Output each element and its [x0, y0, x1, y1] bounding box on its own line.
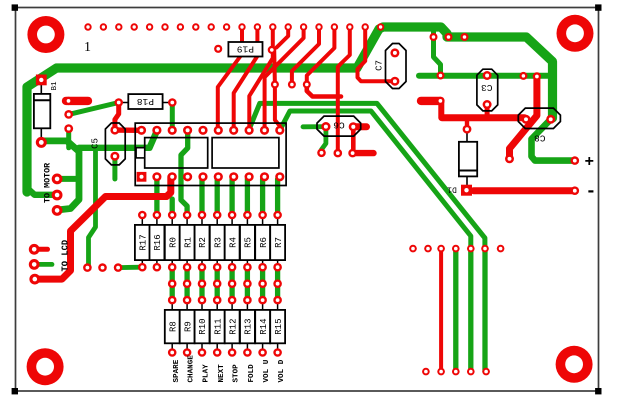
resistor bank2 bottom pads — [168, 348, 282, 357]
svg-text:R8: R8 — [168, 321, 178, 332]
svg-text:C6: C6 — [333, 119, 345, 130]
TO MOTOR connector pads — [52, 174, 63, 216]
pad via fan a0 — [271, 81, 279, 89]
pad P18 left — [114, 98, 123, 107]
svg-text:D1: D1 — [447, 185, 457, 194]
wire lcd pad1 stub — [34, 247, 47, 252]
wire header pad18 through C6 middle — [338, 27, 350, 153]
wire green horizontal net y76 — [419, 73, 551, 79]
svg-text:TO LCD: TO LCD — [61, 240, 71, 272]
pad via — [64, 124, 73, 133]
mounting hole bottom-right — [556, 346, 593, 383]
wire header pad16 fan — [292, 27, 319, 85]
pad C7 top — [390, 48, 399, 57]
wire red horizontal to C8 — [442, 114, 525, 121]
svg-text:R12: R12 — [228, 318, 238, 334]
svg-text:R3: R3 — [213, 237, 223, 248]
wire red horizontal y96 — [307, 85, 341, 97]
pad via y76 a — [437, 72, 445, 80]
wire via down to socket pin — [275, 85, 280, 131]
wire C5 bottom stub — [112, 156, 117, 179]
resistor P18 — [119, 94, 173, 109]
pad plus terminal — [571, 156, 580, 165]
svg-text:STOP: STOP — [233, 364, 241, 383]
svg-text:R4: R4 — [228, 237, 238, 248]
wire P19 right down to via — [272, 50, 277, 85]
pad below C6 a — [317, 149, 326, 158]
svg-text:VOL U: VOL U — [263, 359, 271, 382]
TO LCD connector pads — [29, 244, 40, 285]
pad via fan a — [288, 81, 296, 89]
wire red pill mid — [421, 97, 440, 105]
capacitor C6 — [317, 116, 361, 136]
pad pill right — [436, 97, 444, 105]
svg-text:R11: R11 — [213, 318, 223, 334]
wire B1 cathode S-bus — [42, 141, 79, 210]
pad C5 minus — [110, 152, 119, 161]
svg-text:SPARE: SPARE — [173, 359, 181, 382]
svg-text:R1: R1 — [183, 237, 193, 248]
bottom-right header pads bottom row — [422, 368, 490, 376]
wire C6 bottom right stub — [353, 150, 374, 156]
pad B1 cathode — [36, 137, 47, 148]
wire pill down — [438, 101, 444, 118]
resistor bank1 pads — [138, 211, 282, 272]
pad C8 right — [546, 115, 555, 124]
pad via green a — [430, 33, 438, 41]
capacitor C7 — [375, 44, 406, 89]
wire C6 right pill — [353, 123, 366, 130]
header via pads between banks — [168, 279, 282, 304]
pad C8 left — [522, 115, 531, 124]
svg-text:R0: R0 — [168, 237, 178, 248]
pads row near TO LCD — [83, 263, 122, 272]
wire red pill near B1 — [66, 97, 88, 105]
resistor P19 — [228, 42, 262, 57]
svg-text:R13: R13 — [244, 318, 254, 334]
wires resistor bank1 to header stubs — [172, 267, 277, 300]
mounting hole top-right — [557, 15, 594, 52]
pad below C6 b — [334, 149, 343, 158]
wire C6 left pad down — [322, 127, 326, 153]
svg-text:CHANGE: CHANGE — [188, 355, 196, 383]
wire bottom-right red vertical — [439, 249, 443, 372]
wire header pad17 fan — [307, 27, 335, 85]
svg-text:B1: B1 — [51, 81, 59, 91]
pad below C6 c — [348, 149, 357, 158]
wire green stub via top — [434, 30, 441, 75]
pad D1 top — [463, 125, 472, 134]
svg-text:R15: R15 — [274, 318, 284, 334]
wire header pad12 fan — [234, 27, 258, 130]
wire header pad14 to P19 right — [277, 27, 289, 48]
wire green to + pad — [532, 119, 575, 160]
pad P19 right — [268, 46, 276, 54]
wire red minus rail — [474, 187, 575, 194]
wire pad down — [66, 129, 71, 148]
svg-text:R14: R14 — [259, 318, 269, 334]
diode D1 — [447, 131, 477, 194]
pad C6 right — [349, 122, 358, 131]
wire thin vertical to lcd row — [89, 149, 96, 267]
wire header pad15 fan — [265, 27, 304, 130]
svg-text:C8: C8 — [534, 132, 546, 143]
wire green long diagonal B — [280, 111, 471, 249]
svg-text:P18: P18 — [137, 96, 154, 107]
resistor bank R8-R15 — [165, 300, 285, 352]
wires bottom-right green verticals — [456, 249, 485, 372]
wire motor pad1 stub — [57, 176, 79, 182]
wire red LCD bus — [35, 177, 171, 279]
wire header pad13 fan — [249, 27, 272, 130]
diode B1 — [34, 81, 59, 138]
resistor bank R17 R16 R0-R7 — [135, 214, 285, 268]
svg-text:C5: C5 — [91, 138, 101, 149]
pad C3 top — [483, 71, 492, 80]
pad C3 bottom — [483, 100, 492, 109]
wire header pad19 to C7 — [358, 27, 395, 81]
pad via y76 b — [519, 72, 527, 80]
wire red right zigzag — [510, 78, 537, 159]
wire C6 right pad down — [351, 127, 356, 153]
wire P18 left to C5 top — [115, 103, 119, 131]
svg-text:1: 1 — [84, 40, 91, 55]
pad P18 right — [168, 98, 177, 107]
pad via fan b — [303, 81, 311, 89]
mounting hole top-left — [27, 16, 64, 53]
svg-text:+: + — [585, 153, 595, 171]
bottom-right header pads top row — [409, 245, 504, 253]
pad red top right — [533, 72, 541, 80]
capacitor C5 — [91, 123, 126, 165]
svg-text:FOLD: FOLD — [248, 364, 256, 383]
pad B1 anode square — [36, 75, 47, 86]
svg-text:R5: R5 — [244, 237, 254, 248]
pad P19 left — [214, 45, 222, 53]
wire C6 left stub — [303, 124, 326, 129]
svg-text:C3: C3 — [481, 82, 493, 93]
wire P18 right pad to socket — [170, 103, 175, 131]
svg-text:R6: R6 — [259, 237, 269, 248]
button name labels — [173, 355, 286, 383]
svg-text:P19: P19 — [237, 44, 254, 55]
pad via — [64, 110, 73, 119]
wire C3 bottom down — [485, 105, 490, 118]
svg-text:R9: R9 — [183, 321, 193, 332]
svg-text:R7: R7 — [274, 237, 284, 248]
svg-text:PLAY: PLAY — [203, 364, 211, 383]
pad C7 bottom — [390, 77, 399, 86]
pad D1 bottom square — [461, 185, 472, 196]
wire green long diagonal A — [249, 103, 485, 248]
svg-text:-: - — [586, 182, 597, 202]
wire band through C5 to socket pin2 — [79, 131, 157, 148]
capacitor C8 — [518, 108, 560, 143]
pad via pill — [64, 97, 72, 105]
pad minus terminal — [571, 186, 580, 195]
svg-text:R17: R17 — [139, 234, 149, 250]
wire header pad11 fan — [218, 27, 242, 130]
header pin row top P19/P18 pads — [84, 23, 384, 30]
capacitor C3 — [477, 69, 498, 111]
wires socket to resistor bank verticals — [157, 132, 278, 214]
svg-text:C7: C7 — [375, 60, 385, 71]
pad via green c — [461, 33, 469, 41]
wire lcd pad2 stub — [34, 262, 52, 267]
wire left bus to motor pad2 — [27, 188, 57, 195]
wire row to R17 — [118, 265, 142, 270]
wire C5 top to socket pin1-top — [115, 127, 142, 133]
svg-text:R10: R10 — [198, 318, 208, 334]
svg-text:R16: R16 — [153, 234, 163, 250]
IC socket U1 — [135, 123, 286, 185]
wire green main bus — [27, 27, 553, 192]
socket U1 pads pins 1-20 — [137, 126, 285, 182]
mounting hole bottom-left — [27, 348, 64, 385]
wire stub to D1 top — [465, 118, 469, 129]
wire diagonal to P18 left pad — [69, 103, 119, 115]
pad C6 left — [321, 122, 330, 131]
pad red zigzag end — [505, 154, 514, 163]
svg-text:R2: R2 — [198, 237, 208, 248]
pad C5 plus — [110, 126, 119, 135]
svg-text:VOL D: VOL D — [278, 359, 286, 382]
svg-text:TO MOTOR: TO MOTOR — [43, 162, 53, 203]
pad via green b — [445, 33, 453, 41]
svg-text:NEXT: NEXT — [218, 364, 226, 383]
